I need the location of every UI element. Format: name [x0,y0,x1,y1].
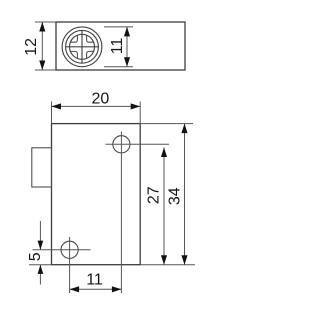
dim 27 arrow down [161,255,167,265]
top hole centerline vertical (also ext. for bottom dim 11) [120,132,122,294]
dim 11 (bottom) arrow left [70,286,80,292]
sensor face cross vertical [81,30,83,63]
dim 11 (bottom) arrow right [112,286,122,292]
dim 12 line [41,22,43,70]
dim 34 line [184,124,186,265]
dim 5 line upper [39,221,41,250]
dim 11 (side view) arrow down [124,57,130,66]
svg-text:5: 5 [27,252,44,261]
screw slot outline quadrant lower-left [70,51,77,58]
dim 20 extension line right [139,102,141,124]
svg-text:27: 27 [146,186,163,204]
dim 5 arrow up (below, pointing up) [38,265,44,274]
dim 5 arrow down (above, pointing down) [38,241,44,250]
top hole [113,136,130,153]
dim 34 arrow down [181,255,187,265]
dim 12 arrow up [39,22,45,32]
dim 34 arrow up [181,124,187,134]
bottom hole [61,241,78,258]
svg-text:12: 12 [23,38,40,56]
dim 11 (bottom) line [70,288,122,290]
sensor face cross horizontal [66,46,99,48]
dim 34 extension line top [140,123,193,125]
bottom edge extension right (for dims 27/34) [140,264,195,266]
screw slot outline quadrant upper-left [70,35,77,42]
svg-text:11: 11 [109,38,126,55]
dim 27 arrow up [161,148,167,158]
sensor face ring 2 [66,30,99,63]
dim 12 arrow down [39,61,45,71]
dim 20 arrow left [52,103,62,109]
dim 20 arrow right [131,103,141,109]
front body outline [52,124,141,265]
extension line top edge left (for dim 12) [35,21,56,23]
side view body outline [56,22,185,70]
screw slot outline quadrant lower-right [87,51,94,58]
dim 11 (side view) extension line bottom [104,66,133,68]
extension line bottom edge left (for dim 12) [35,69,56,71]
dim 20 extension line left [51,102,53,124]
bottom edge extension left (for dim 5) [29,264,52,266]
mounting tab left [32,148,52,187]
bottom hole centerline vertical (also ext. for bottom dim 11) [69,237,71,293]
bottom hole centerline horizontal (also ext. for dim 5) [33,249,91,251]
sensor face outer circle [62,27,102,67]
dim 11 (side view) extension line top [104,26,133,28]
dim 20 line [52,105,141,107]
sensor face ring 3 (screw head) [70,34,95,59]
dim 11 (side view) line [126,27,128,67]
dim 11 (side view) arrow up [124,27,130,37]
top hole centerline horizontal (also ext. for dim 27) [106,143,170,145]
dim 5 line lower [39,265,41,285]
svg-text:34: 34 [167,187,184,205]
svg-text:20: 20 [92,91,110,108]
svg-text:11: 11 [86,272,103,289]
screw slot outline quadrant upper-right [87,35,94,42]
dim 27 line [163,148,165,265]
